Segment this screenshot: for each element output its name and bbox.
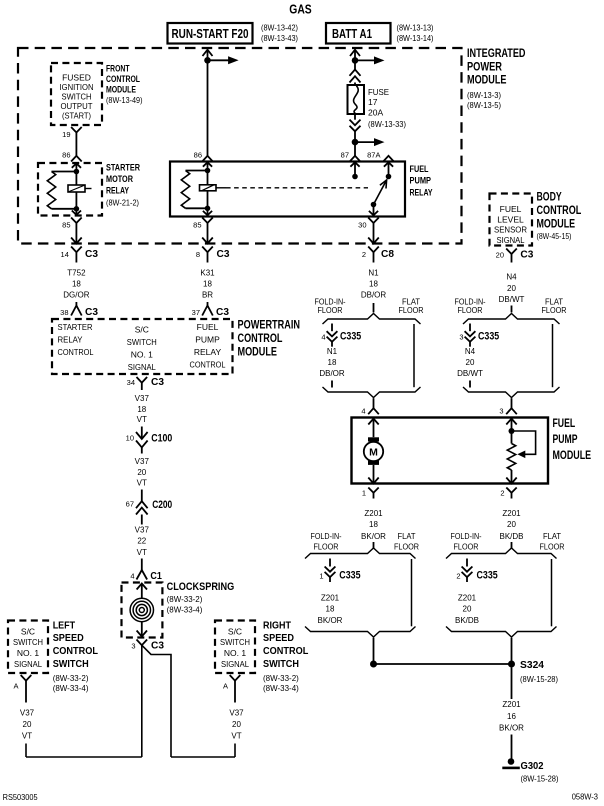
- svg-text:20A: 20A: [368, 107, 383, 117]
- junction fuel pump relay coil bottom: [205, 206, 211, 212]
- starter relay coil symbol: [68, 185, 85, 192]
- wire left switch pin A: [25, 687, 27, 703]
- svg-text:C335: C335: [339, 570, 360, 582]
- svg-text:BODY: BODY: [537, 191, 562, 203]
- fuel pump relay coil resistor: [186, 170, 208, 172]
- svg-text:Z201: Z201: [364, 509, 383, 518]
- svg-text:PUMP: PUMP: [195, 335, 220, 345]
- svg-text:S/C: S/C: [135, 325, 149, 335]
- svg-text:(8W-33-2): (8W-33-2): [53, 674, 89, 683]
- svg-text:FOLD-IN-: FOLD-IN-: [311, 532, 342, 541]
- wire Z201-20 flat floor branch: [551, 559, 553, 626]
- svg-text:FLOOR: FLOOR: [394, 542, 419, 551]
- svg-text:NO. 1: NO. 1: [224, 648, 246, 658]
- svg-text:PUMP: PUMP: [410, 176, 432, 186]
- svg-text:16: 16: [507, 712, 516, 721]
- svg-text:Z201: Z201: [458, 594, 477, 603]
- harness brace split Z201 20: [446, 548, 557, 559]
- connector chevrons above fuse 17: [350, 70, 361, 76]
- svg-text:FLOOR: FLOOR: [399, 306, 424, 315]
- svg-text:87: 87: [341, 151, 349, 160]
- svg-text:20: 20: [463, 605, 472, 614]
- svg-text:CONTROL: CONTROL: [58, 347, 94, 357]
- module Fuel Pump Module boundary: [352, 418, 549, 484]
- relay Fuel Pump Relay boundary: [170, 162, 405, 217]
- svg-text:3: 3: [459, 333, 463, 342]
- connector C335 pin 2: [466, 559, 468, 567]
- svg-text:N1: N1: [327, 347, 338, 356]
- svg-text:V37: V37: [135, 526, 150, 535]
- svg-text:SWITCH: SWITCH: [127, 337, 157, 347]
- wire right switch pin A: [234, 687, 236, 703]
- svg-text:(8W-33-4): (8W-33-4): [167, 606, 203, 615]
- svg-text:MOTOR: MOTOR: [106, 174, 133, 184]
- svg-text:MODULE: MODULE: [467, 74, 507, 86]
- svg-text:3: 3: [499, 407, 503, 416]
- connector C200 pin 67: [141, 490, 143, 502]
- connector C335 pin 1: [329, 559, 331, 567]
- svg-text:18: 18: [72, 280, 81, 289]
- svg-text:(8W-13-5): (8W-13-5): [467, 101, 501, 110]
- svg-text:8: 8: [196, 250, 200, 259]
- svg-text:C3: C3: [216, 306, 229, 318]
- wire S324 to ground: [511, 668, 513, 700]
- svg-text:20: 20: [137, 468, 146, 477]
- svg-text:LEVEL: LEVEL: [497, 214, 524, 224]
- svg-text:(8W-13-33): (8W-13-33): [368, 120, 406, 129]
- wire N1 merge to fuel pump module pin 4: [373, 398, 375, 408]
- svg-text:RELAY: RELAY: [58, 335, 83, 345]
- svg-text:(8W-13-49): (8W-13-49): [106, 96, 143, 105]
- svg-text:C200: C200: [152, 499, 172, 511]
- svg-text:M: M: [369, 447, 378, 459]
- svg-text:(8W-13-3): (8W-13-3): [467, 91, 501, 100]
- svg-text:NO. 1: NO. 1: [17, 648, 39, 658]
- connector C100 pin 10: [141, 427, 143, 440]
- svg-text:85: 85: [193, 221, 201, 230]
- svg-text:20: 20: [232, 720, 241, 729]
- svg-text:C8: C8: [381, 248, 394, 260]
- svg-text:SWITCH: SWITCH: [53, 658, 89, 670]
- svg-text:(8W-13-14): (8W-13-14): [397, 34, 434, 43]
- connector fork FCM pin 19: [71, 127, 82, 133]
- svg-text:SENSOR: SENSOR: [494, 225, 527, 235]
- svg-text:(8W-13-42): (8W-13-42): [261, 23, 298, 32]
- wire pin 87 contact with arrow: [350, 162, 359, 166]
- svg-text:DB/WT: DB/WT: [499, 295, 525, 304]
- wire Z201-20 into split: [511, 542, 513, 548]
- svg-text:34: 34: [127, 378, 135, 387]
- svg-text:S/C: S/C: [228, 626, 242, 636]
- wire N4 into split: [511, 306, 513, 313]
- svg-text:FUEL: FUEL: [410, 164, 429, 174]
- svg-text:V37: V37: [135, 457, 150, 466]
- wire BR into PCM pin 37: [207, 302, 209, 306]
- wire run-start to fuel pump relay pin 86: [207, 60, 209, 156]
- svg-text:FLOOR: FLOOR: [458, 306, 483, 315]
- svg-text:18: 18: [369, 280, 378, 289]
- wire batt node to fuse connector: [354, 60, 356, 70]
- svg-text:FLOOR: FLOOR: [318, 306, 343, 315]
- wire starter relay coil: [75, 172, 77, 209]
- svg-text:VT: VT: [137, 548, 147, 557]
- svg-text:DB/OR: DB/OR: [361, 291, 387, 300]
- svg-text:V37: V37: [229, 708, 244, 717]
- svg-text:85: 85: [62, 221, 70, 230]
- svg-text:OUTPUT: OUTPUT: [61, 101, 93, 111]
- svg-text:SWITCH: SWITCH: [13, 637, 43, 647]
- svg-text:SIGNAL: SIGNAL: [128, 362, 156, 372]
- svg-text:37: 37: [192, 308, 200, 317]
- svg-text:C3: C3: [85, 248, 98, 260]
- connector arrow fuel pump relay pin 86 internal: [203, 162, 212, 166]
- svg-text:SWITCH: SWITCH: [263, 658, 299, 670]
- svg-text:1: 1: [362, 488, 366, 497]
- wire N4 merge to fuel pump module pin 3: [511, 398, 513, 408]
- svg-text:(8W-13-13): (8W-13-13): [397, 23, 434, 32]
- svg-text:FLOOR: FLOOR: [314, 542, 339, 551]
- wire fuel pump relay coil: [207, 171, 209, 209]
- svg-text:FOLD-IN-: FOLD-IN-: [451, 532, 482, 541]
- svg-text:FUSED: FUSED: [62, 73, 91, 83]
- svg-text:MODULE: MODULE: [106, 84, 136, 94]
- svg-text:DB/OR: DB/OR: [319, 369, 345, 378]
- svg-text:MODULE: MODULE: [238, 347, 278, 359]
- svg-text:POWER: POWER: [467, 62, 503, 74]
- junction node batt feed: [352, 57, 359, 64]
- link relay coil to switch (dashed): [226, 187, 368, 189]
- ground G302: [508, 758, 515, 765]
- svg-text:(8W-33-4): (8W-33-4): [263, 684, 299, 693]
- svg-text:VT: VT: [137, 415, 147, 424]
- wire Z201-18 into split: [373, 542, 375, 548]
- svg-text:BK/OR: BK/OR: [318, 616, 343, 625]
- svg-text:20: 20: [507, 284, 516, 293]
- svg-text:BR: BR: [202, 291, 213, 300]
- wire pin 30 to relay box edge with arrow: [373, 205, 375, 216]
- svg-text:18: 18: [203, 280, 212, 289]
- svg-text:CONTROL: CONTROL: [263, 645, 309, 657]
- svg-text:14: 14: [61, 250, 69, 259]
- wire N1 flat floor branch: [413, 324, 415, 387]
- connector C8 pin 2: [368, 247, 379, 253]
- harness brace split Z201 18: [305, 548, 416, 559]
- connector arrow starter relay pin 85 internal: [75, 209, 77, 215]
- module Front Control Module - FUSED IGNITION SWITCH OUTPUT (START): [51, 63, 102, 125]
- svg-text:(8W-13-43): (8W-13-43): [261, 34, 298, 43]
- wire Z201-18 flat floor branch: [411, 559, 413, 626]
- harness brace split N4: [463, 314, 560, 325]
- svg-text:10: 10: [126, 434, 134, 443]
- starter relay coil resistor: [52, 171, 77, 173]
- svg-text:INTEGRATED: INTEGRATED: [467, 48, 526, 60]
- connector fork left switch pin A: [21, 675, 32, 681]
- connector arrow BATT A1 into IPM: [350, 50, 360, 56]
- junction node run-start feed: [204, 57, 211, 64]
- svg-text:SWITCH: SWITCH: [62, 91, 92, 101]
- svg-text:CONTROL: CONTROL: [537, 205, 582, 217]
- svg-text:SWITCH: SWITCH: [220, 637, 250, 647]
- relay Starter Motor Relay boundary: [38, 163, 102, 216]
- svg-text:FUSE: FUSE: [368, 87, 389, 97]
- svg-text:FLOOR: FLOOR: [454, 542, 479, 551]
- connector fork fuel pump relay pin 85: [202, 218, 213, 224]
- motor M fuel pump: [368, 437, 379, 441]
- svg-text:PUMP: PUMP: [553, 434, 578, 446]
- power feed BATT A1: [326, 23, 391, 44]
- svg-text:MODULE: MODULE: [537, 218, 576, 230]
- wire stub N4 fold-in-floor: [469, 381, 471, 388]
- svg-text:Z201: Z201: [321, 594, 340, 603]
- svg-text:DG/OR: DG/OR: [63, 291, 89, 300]
- harness merge brace N4: [463, 387, 560, 398]
- svg-text:67: 67: [126, 500, 134, 509]
- svg-text:C3: C3: [520, 249, 533, 261]
- connector fork fuel pump relay pin 87A: [383, 156, 394, 162]
- connector C335 pin 4: [331, 324, 333, 332]
- svg-text:CONTROL: CONTROL: [190, 360, 226, 370]
- svg-text:4: 4: [130, 572, 134, 581]
- svg-text:RS503005: RS503005: [3, 792, 38, 802]
- svg-text:CONTROL: CONTROL: [53, 645, 99, 657]
- svg-text:T752: T752: [67, 269, 86, 278]
- fuse F17: [348, 85, 365, 114]
- wire starter relay pin 85 to IPM connector C3: [75, 230, 77, 244]
- wire Z201-18 to splice S324: [373, 638, 375, 664]
- svg-text:20: 20: [496, 251, 504, 260]
- svg-text:RUN-START F20: RUN-START F20: [172, 27, 249, 41]
- pin 1 fuel pump module: [368, 488, 378, 493]
- svg-text:C3: C3: [85, 306, 98, 318]
- svg-text:18: 18: [137, 405, 146, 414]
- svg-text:LEFT: LEFT: [53, 620, 76, 632]
- svg-text:C335: C335: [477, 570, 498, 582]
- svg-text:Z201: Z201: [502, 700, 521, 709]
- connector fork fuel pump relay pin 30: [368, 218, 379, 224]
- svg-text:38: 38: [60, 308, 68, 317]
- svg-text:4: 4: [321, 333, 325, 342]
- svg-text:FLAT: FLAT: [398, 532, 416, 541]
- connector C3 pin 8: [202, 247, 213, 253]
- svg-text:20: 20: [23, 720, 32, 729]
- svg-text:17: 17: [368, 97, 378, 107]
- svg-text:FLOOR: FLOOR: [540, 542, 565, 551]
- clockspring boundary: [122, 583, 163, 638]
- svg-text:20: 20: [507, 520, 516, 529]
- svg-text:058W-3: 058W-3: [572, 792, 599, 802]
- svg-text:2: 2: [362, 250, 366, 259]
- connector arrow out of sender pin 2: [511, 480, 513, 484]
- svg-text:1: 1: [319, 572, 323, 581]
- svg-text:STARTER: STARTER: [106, 163, 140, 173]
- module Powertrain Control Module boundary: [52, 319, 233, 374]
- svg-text:SIGNAL: SIGNAL: [14, 659, 42, 669]
- connector arrow into pump pin 4: [368, 419, 378, 425]
- connector fork fuel pump relay pin 87: [350, 156, 361, 162]
- svg-text:86: 86: [194, 151, 202, 160]
- pin 3 fuel pump module: [506, 408, 517, 414]
- svg-text:SIGNAL: SIGNAL: [497, 235, 525, 245]
- svg-text:SIGNAL: SIGNAL: [221, 659, 249, 669]
- svg-text:C3: C3: [151, 376, 164, 388]
- switch Left Speed Control Switch - S/C SWITCH NO. 1 SIGNAL: [8, 621, 48, 674]
- svg-text:4: 4: [361, 407, 365, 416]
- fuel pump relay switch blade: [374, 180, 387, 205]
- svg-text:(START): (START): [62, 110, 91, 120]
- svg-text:FUEL: FUEL: [197, 322, 219, 332]
- svg-text:V37: V37: [135, 394, 150, 403]
- fuel pump relay coil symbol: [200, 185, 217, 191]
- connector arrow fuel pump relay pin 85 internal: [207, 208, 209, 215]
- svg-text:18: 18: [326, 605, 335, 614]
- harness merge brace N1: [323, 387, 421, 398]
- connector C1 pin 4 clockspring: [141, 559, 143, 571]
- fuse block RUN-START F20: [168, 23, 253, 44]
- fuel level sender wiper arm: [512, 431, 536, 454]
- svg-text:22: 22: [137, 537, 146, 546]
- svg-text:S/C: S/C: [21, 626, 35, 636]
- svg-text:GAS: GAS: [289, 2, 312, 17]
- svg-text:BK/OR: BK/OR: [361, 532, 386, 541]
- svg-text:FUEL: FUEL: [553, 418, 576, 430]
- svg-text:SPEED: SPEED: [53, 632, 84, 644]
- svg-text:K31: K31: [200, 269, 215, 278]
- pin 4 fuel pump module: [368, 408, 379, 414]
- connector arrow starter relay pin 86 internal: [72, 163, 81, 167]
- wire left switch to junction rail: [25, 744, 27, 758]
- svg-text:30: 30: [358, 221, 366, 230]
- wire fuel pump relay pin 30 to IPM connector C8: [373, 230, 375, 244]
- svg-text:FRONT: FRONT: [106, 64, 130, 74]
- junction node fuse output: [352, 139, 359, 146]
- svg-text:18: 18: [369, 520, 378, 529]
- svg-text:N1: N1: [368, 269, 379, 278]
- svg-text:Z201: Z201: [502, 509, 521, 518]
- svg-text:BK/DB: BK/DB: [499, 532, 523, 541]
- connector chevrons below fuse 17: [354, 114, 356, 120]
- svg-text:3: 3: [131, 642, 135, 651]
- svg-text:FLAT: FLAT: [543, 532, 561, 541]
- connector C3 pin 20 BCM: [506, 249, 517, 255]
- connector fork starter relay pin 85: [71, 218, 82, 224]
- svg-text:C1: C1: [150, 570, 162, 582]
- svg-text:20: 20: [466, 358, 475, 367]
- connector C3 pin 14: [71, 247, 82, 253]
- svg-text:18: 18: [328, 358, 337, 367]
- wire clockspring to right speed control switch: [142, 645, 171, 757]
- pin 2 fuel pump module: [506, 488, 516, 493]
- svg-text:87A: 87A: [367, 151, 380, 160]
- wire to ground G302: [511, 735, 513, 759]
- connector arrow into sender pin 3: [506, 419, 516, 425]
- connector C3 pin 3 clockspring: [137, 640, 148, 646]
- svg-text:(8W-33-2): (8W-33-2): [167, 595, 203, 604]
- wire pin 87A contact with arrow: [384, 162, 393, 166]
- svg-text:CONTROL: CONTROL: [238, 333, 283, 345]
- svg-text:(8W-15-28): (8W-15-28): [520, 675, 558, 684]
- svg-text:C3: C3: [217, 248, 230, 260]
- connector fork starter relay pin 86: [71, 156, 82, 162]
- svg-text:C335: C335: [478, 331, 499, 343]
- harness merge brace Z201 18: [305, 627, 416, 638]
- connector fork right switch pin A: [230, 675, 241, 681]
- svg-text:BATT A1: BATT A1: [332, 27, 372, 41]
- svg-text:RELAY: RELAY: [410, 187, 433, 197]
- svg-text:RELAY: RELAY: [106, 186, 129, 196]
- svg-text:BK/DB: BK/DB: [455, 616, 479, 625]
- svg-text:(8W-33-4): (8W-33-4): [53, 684, 89, 693]
- module Body Control Module - FUEL LEVEL SENSOR SIGNAL: [490, 194, 533, 246]
- svg-text:A: A: [223, 682, 228, 691]
- svg-text:C100: C100: [151, 432, 172, 444]
- wire splice rail: [374, 663, 512, 665]
- wire FCM pin 19 to starter motor relay pin 86: [75, 140, 77, 156]
- svg-text:FUEL: FUEL: [500, 204, 522, 214]
- svg-text:POWERTRAIN: POWERTRAIN: [238, 320, 301, 332]
- connector arrow RUN-START into IPM: [203, 50, 213, 56]
- svg-text:VT: VT: [137, 478, 147, 487]
- svg-text:DB/WT: DB/WT: [457, 369, 483, 378]
- wire stub N1 fold-in-floor: [331, 381, 333, 388]
- svg-text:RELAY: RELAY: [194, 347, 222, 357]
- svg-text:N4: N4: [465, 347, 476, 356]
- connector C335 pin 3: [469, 324, 471, 332]
- svg-text:STARTER: STARTER: [58, 322, 93, 332]
- svg-text:CONTROL: CONTROL: [106, 74, 140, 84]
- svg-text:86: 86: [62, 151, 70, 160]
- svg-text:SPEED: SPEED: [263, 632, 294, 644]
- svg-text:FLOOR: FLOOR: [542, 306, 567, 315]
- svg-text:NO. 1: NO. 1: [131, 350, 153, 360]
- svg-text:VT: VT: [22, 732, 32, 741]
- clockspring coil spiral: [137, 584, 147, 590]
- wire fuse output to relay pin 87: [354, 142, 356, 156]
- branch arrow to other circuits from fuse output: [355, 141, 376, 143]
- svg-text:BK/OR: BK/OR: [499, 724, 524, 733]
- svg-text:19: 19: [62, 130, 70, 139]
- wire N4 flat floor branch: [552, 324, 554, 387]
- junction sender wiper node: [509, 428, 515, 434]
- wire Z201-20 to splice S324: [511, 638, 513, 664]
- branch arrow to other circuits from batt node: [355, 59, 376, 61]
- wire DG/OR into PCM pin 38: [75, 302, 77, 306]
- splice junction left node: [370, 661, 377, 668]
- svg-text:S324: S324: [520, 659, 544, 671]
- svg-text:A: A: [13, 682, 18, 691]
- connector C3 pin 34 PCM output: [137, 377, 148, 383]
- svg-text:(8W-45-15): (8W-45-15): [537, 232, 572, 241]
- svg-text:RIGHT: RIGHT: [263, 620, 291, 632]
- svg-text:(8W-15-28): (8W-15-28): [521, 775, 559, 784]
- svg-text:V37: V37: [20, 708, 35, 717]
- svg-text:N4: N4: [506, 273, 517, 282]
- svg-text:C335: C335: [340, 331, 361, 343]
- svg-text:(8W-33-2): (8W-33-2): [263, 674, 299, 683]
- svg-text:(8W-21-2): (8W-21-2): [106, 198, 139, 207]
- wire clockspring to left speed control switch: [141, 645, 143, 757]
- svg-text:CLOCKSPRING: CLOCKSPRING: [167, 581, 235, 593]
- splice S324: [508, 661, 515, 668]
- svg-text:C3: C3: [151, 639, 164, 651]
- svg-text:VT: VT: [231, 732, 241, 741]
- svg-text:MODULE: MODULE: [553, 450, 592, 462]
- wire fuel pump relay pin 85 to IPM connector C3: [207, 230, 209, 244]
- connector fork fuel pump relay pin 86: [202, 156, 213, 162]
- harness brace split N1: [323, 314, 421, 325]
- branch arrow to other circuits from run-start node: [208, 59, 230, 61]
- fuel level sender resistor: [511, 431, 513, 444]
- connector arrow out of pump pin 1: [373, 465, 375, 484]
